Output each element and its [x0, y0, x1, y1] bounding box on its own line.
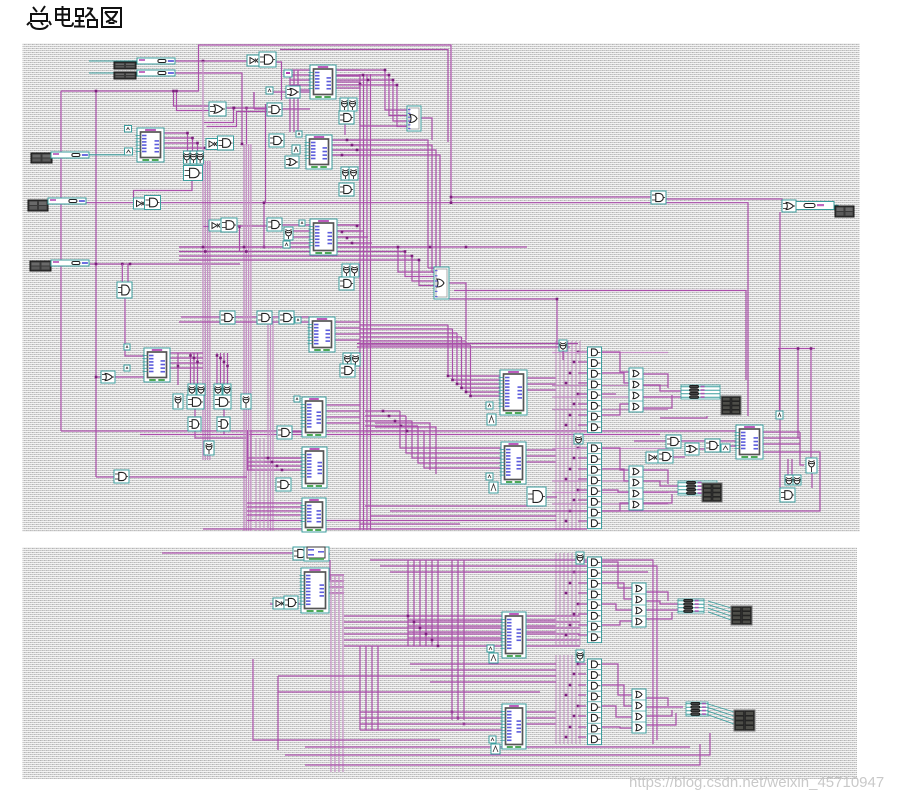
gate GB1	[293, 547, 308, 560]
IC UF	[501, 612, 527, 658]
gate G23c	[340, 364, 355, 377]
wire mux2 out	[449, 283, 466, 340]
wire or-g4	[226, 107, 267, 109]
wire bus x270	[268, 317, 273, 531]
wire dcol1 in	[578, 352, 588, 425]
gate G25u-a	[184, 151, 191, 164]
wire g36 to or	[666, 199, 782, 207]
wire bus	[205, 161, 210, 460]
wire U1-mux1	[336, 75, 407, 116]
wire	[179, 321, 309, 323]
wire UC out	[763, 432, 800, 444]
wire p2 stair	[408, 560, 438, 646]
wire	[272, 91, 286, 93]
gate G38	[559, 340, 567, 351]
word generator XWG5	[30, 261, 51, 271]
wire	[223, 431, 225, 434]
IC U2	[305, 135, 333, 169]
wire into UA	[466, 341, 500, 392]
wire	[601, 604, 632, 610]
wire U2-mux2	[332, 140, 428, 268]
gate G21	[257, 311, 272, 324]
wire y529	[203, 528, 587, 530]
junction	[177, 354, 229, 367]
wire	[788, 459, 792, 476]
IC UC	[735, 425, 764, 459]
junction	[382, 410, 409, 433]
display DS4	[734, 710, 755, 731]
wire into UB	[400, 411, 501, 448]
wire p2 bundle	[344, 616, 580, 646]
wire	[114, 376, 144, 378]
wire U9 out2	[164, 138, 193, 152]
IC U3	[309, 219, 338, 255]
clock CLK19	[489, 736, 496, 743]
gate G25u-b	[190, 151, 197, 164]
gate G26a	[214, 384, 222, 395]
word generator XWG1	[114, 62, 136, 69]
wire to G19b	[127, 264, 129, 284]
gate G19	[117, 282, 132, 298]
wire y290	[454, 291, 746, 381]
wire	[642, 470, 668, 484]
IC U6	[301, 397, 327, 437]
wire U4 spread	[360, 324, 448, 326]
word generator XWG2	[114, 72, 136, 79]
wire net1	[175, 60, 247, 62]
wire U1 in	[290, 70, 310, 90]
gate G24	[101, 371, 115, 383]
wire	[346, 99, 348, 108]
wire into UF	[408, 620, 502, 638]
wire UA out	[527, 378, 556, 390]
wire x239	[239, 227, 241, 252]
wire bus x260	[256, 438, 268, 531]
word generator probe block XP1	[835, 206, 854, 217]
gate GB2a	[273, 598, 285, 609]
wire into UA	[448, 325, 500, 376]
wire U1-mux1	[336, 80, 407, 121]
wire x246 up	[246, 108, 248, 146]
wire	[390, 571, 648, 573]
gate G18c	[339, 277, 354, 290]
word generator XWG4	[28, 200, 48, 211]
IC UB	[500, 442, 527, 484]
wire	[800, 432, 804, 465]
wire U3 in	[290, 231, 310, 243]
wire into UB	[418, 426, 501, 463]
wire mux2 in	[434, 281, 440, 283]
wire	[420, 669, 556, 671]
wire x780	[779, 212, 781, 459]
wire	[223, 409, 225, 418]
wire bus x246	[244, 144, 251, 531]
wire	[634, 440, 666, 442]
wire bottom1	[285, 733, 710, 755]
wire x265	[265, 104, 267, 203]
wire row247-mux2	[179, 256, 434, 281]
resistor pack RP4	[686, 702, 708, 716]
wire y511	[390, 510, 732, 512]
wire	[646, 592, 668, 601]
gate GB2b	[284, 596, 298, 609]
wire U9 out1	[164, 133, 188, 152]
wire into UB	[424, 431, 501, 468]
resistor pack RP1	[681, 385, 720, 399]
wire UG out	[526, 712, 556, 724]
wire U1-mux1	[336, 70, 407, 110]
junction UA in	[447, 375, 472, 398]
gate G13b	[221, 218, 237, 232]
wire	[601, 562, 632, 588]
clock CLK8	[125, 148, 133, 155]
wire corner2	[177, 91, 212, 111]
wire	[300, 91, 310, 93]
gate G6a	[206, 139, 218, 150]
wire	[272, 316, 280, 318]
wire into UA	[462, 337, 501, 388]
clock CLK16	[721, 444, 730, 452]
junction	[245, 107, 248, 110]
wire U3 out	[337, 225, 360, 243]
wire	[278, 675, 556, 677]
junction	[359, 74, 370, 86]
wire	[796, 205, 798, 207]
wire into UA	[471, 345, 501, 396]
wire	[306, 553, 330, 555]
wire	[601, 404, 629, 415]
gate G14	[267, 218, 282, 231]
wire L1	[204, 108, 234, 123]
gate G18a	[342, 264, 351, 277]
wire cyan inC	[53, 263, 90, 265]
gate column OC1	[629, 368, 643, 412]
wire y506	[365, 505, 543, 507]
wire row247	[179, 246, 527, 248]
gate G7	[269, 134, 284, 147]
IC UG	[501, 704, 527, 749]
wire	[601, 393, 616, 395]
IC U4	[308, 317, 336, 352]
wire long pair B	[140, 434, 660, 436]
wire bus mid	[360, 74, 371, 530]
switch S5	[51, 260, 89, 266]
IC UD (cut at panel top)	[304, 547, 329, 561]
wire	[290, 70, 298, 132]
gate G32	[277, 426, 292, 439]
grid panel 2	[23, 547, 858, 779]
wire	[646, 713, 676, 725]
wire into UB	[406, 416, 501, 453]
wire U7 in2	[264, 458, 302, 462]
wire	[646, 706, 683, 708]
clock CLK2	[296, 131, 302, 137]
clock CLK14	[486, 473, 493, 480]
clock CLK1	[266, 87, 273, 94]
wire	[642, 491, 678, 493]
wire A-probe	[779, 349, 781, 412]
wire cyan inA	[89, 154, 125, 156]
gate G5a	[340, 98, 349, 111]
wire y477	[96, 476, 247, 478]
junction	[797, 347, 813, 350]
gate G25c	[197, 384, 205, 395]
IC U9	[136, 128, 165, 162]
wire	[253, 659, 440, 740]
wire right rail p2a	[370, 560, 653, 744]
junction	[341, 139, 359, 157]
wire	[253, 92, 255, 109]
wire	[277, 676, 279, 750]
display DS3	[731, 606, 752, 625]
wire dcol2 in	[578, 448, 588, 521]
wire cyan	[834, 206, 838, 209]
gate G12a	[134, 198, 146, 209]
wire	[344, 121, 346, 135]
junction U9 out	[186, 132, 205, 150]
svg-text:https://blog.csdn.net/weixin_4: https://blog.csdn.net/weixin_45710947	[629, 774, 884, 791]
wire	[365, 425, 418, 427]
junction	[95, 90, 98, 93]
wire	[601, 490, 629, 492]
wire	[365, 430, 424, 432]
gate column DC1	[588, 347, 602, 433]
clock CLK18	[489, 653, 498, 663]
wire	[340, 112, 342, 121]
gate G36	[651, 191, 666, 204]
wire corner1	[174, 91, 212, 106]
wire	[254, 108, 267, 110]
wire trio loop	[134, 181, 193, 198]
gate G26b	[223, 384, 231, 395]
wire	[194, 409, 196, 418]
wire UF out	[526, 620, 556, 632]
wire	[234, 316, 257, 318]
word generator XWG3	[31, 153, 52, 163]
wire stair extra	[375, 423, 430, 470]
wire bus top2	[280, 50, 448, 143]
wire U5 out	[170, 353, 203, 368]
wire	[286, 603, 301, 605]
wire UE out	[329, 575, 344, 593]
junction dist2	[565, 447, 580, 523]
wire	[601, 448, 629, 470]
gate G49b	[793, 475, 801, 485]
wire	[697, 448, 705, 450]
wire	[235, 225, 267, 227]
wire	[282, 224, 310, 226]
gate G20	[220, 311, 235, 324]
wire x811	[810, 349, 812, 459]
junction row247	[202, 246, 248, 253]
wire	[278, 691, 540, 693]
gate column OC4	[632, 689, 646, 733]
wire U4 out	[335, 322, 360, 340]
wire band A	[552, 353, 668, 410]
wire p2 stair2	[452, 560, 464, 720]
clock CLK17	[487, 645, 494, 652]
gate G29	[204, 441, 214, 455]
gate G39	[574, 434, 583, 444]
wire	[673, 456, 685, 458]
wire	[678, 440, 736, 442]
junction	[341, 225, 359, 245]
gate G11b	[349, 167, 358, 180]
gate G47c	[705, 439, 720, 452]
resistor pack RP2	[678, 481, 717, 495]
wire mux2 in	[428, 267, 434, 269]
junction	[232, 107, 235, 110]
wire	[646, 698, 668, 706]
wire	[359, 84, 361, 126]
gate column OC3	[632, 583, 646, 627]
display DS1	[721, 396, 741, 415]
junction	[95, 376, 98, 379]
gate G25u-c	[197, 151, 204, 164]
resistor R1	[796, 202, 834, 210]
gate G28b	[217, 417, 230, 431]
wire y343	[357, 343, 578, 345]
wire	[360, 125, 407, 127]
gate G47e	[658, 450, 673, 463]
clock CLK13	[487, 414, 496, 425]
clock CLK11	[294, 396, 300, 402]
gate G22	[279, 311, 294, 324]
gate G30	[114, 470, 129, 483]
gate G25b	[188, 384, 196, 395]
wire g38 out	[562, 351, 564, 360]
clock CLK9	[124, 344, 130, 350]
wire U3 out	[337, 224, 360, 226]
IC UE	[300, 568, 330, 613]
resistor pack RP3	[678, 599, 704, 613]
wire U6 out	[326, 405, 360, 423]
wire	[601, 621, 632, 625]
wire U4 spread	[360, 340, 466, 342]
wire dcol4 in	[578, 664, 586, 737]
wire	[181, 316, 203, 318]
wire	[365, 410, 400, 412]
clock CLK7	[125, 126, 132, 133]
clock CLK20	[491, 744, 500, 754]
IC UA	[499, 370, 528, 415]
wire	[601, 583, 632, 599]
wire L2	[207, 112, 268, 127]
wire band B	[552, 449, 668, 505]
gate MUX2	[434, 267, 449, 299]
gate G15	[284, 227, 293, 240]
wire	[601, 685, 632, 706]
junction	[429, 246, 468, 249]
wire U3 out	[337, 236, 368, 238]
clock CLK4	[299, 220, 305, 226]
gate G28a	[188, 417, 201, 431]
gate G25a	[173, 394, 183, 409]
IC U7	[301, 447, 328, 488]
wire into UA	[457, 333, 500, 384]
gate GB3	[576, 552, 584, 564]
wire cyan in1	[89, 60, 175, 62]
wire dist p2b	[556, 655, 580, 744]
wire long pair A	[61, 430, 736, 432]
wire stair extra	[375, 427, 436, 474]
gate column DC2	[588, 443, 602, 529]
junction	[233, 107, 236, 110]
wire	[114, 476, 129, 478]
wire	[601, 352, 629, 372]
wire U3 out	[337, 242, 372, 244]
gate MUX1	[407, 106, 421, 131]
wire row247-mux2	[179, 247, 434, 272]
wire	[365, 415, 406, 417]
wire	[248, 430, 252, 470]
junction p2b	[565, 663, 580, 739]
wire	[646, 609, 683, 611]
wire U2 out	[332, 140, 360, 155]
wire into U8	[247, 503, 302, 515]
gate GB4	[576, 650, 584, 662]
wire bus top loop	[61, 45, 451, 203]
wire left rail x62	[60, 91, 62, 431]
gate G1b	[259, 52, 276, 67]
wire y516	[370, 515, 556, 517]
wire	[601, 373, 629, 383]
wire	[779, 459, 781, 490]
wire into UG	[360, 712, 502, 730]
gate G46	[527, 487, 546, 506]
junction	[450, 196, 453, 199]
wire U1 out	[336, 70, 360, 88]
gate column DC4	[588, 659, 602, 745]
wire	[642, 481, 678, 486]
wire	[646, 710, 672, 716]
wire x798	[797, 349, 799, 439]
switch S1	[137, 58, 175, 64]
junction	[172, 90, 178, 93]
wire g48 out	[811, 473, 813, 488]
gate column OC2	[629, 466, 643, 510]
wire U4 spread	[360, 336, 462, 338]
junction	[263, 201, 453, 248]
wire	[365, 420, 412, 422]
wire	[360, 646, 378, 730]
wire	[292, 316, 309, 318]
gate G23b	[351, 353, 360, 366]
wire into UA	[453, 329, 501, 380]
wire g1 out	[276, 62, 282, 100]
wire	[646, 612, 672, 619]
wire dist p2a	[556, 553, 580, 645]
wire	[329, 560, 331, 580]
wire y524	[360, 523, 460, 525]
wire	[601, 664, 632, 695]
IC U8	[301, 498, 327, 532]
label box LB1	[284, 70, 292, 77]
switch S3	[51, 152, 89, 158]
clock CLK15	[489, 482, 498, 493]
gate G25d	[187, 395, 204, 409]
gate G5c	[339, 111, 354, 124]
wire dcol3 in	[578, 562, 588, 635]
grid panel 1	[23, 43, 860, 532]
wire inB	[85, 202, 134, 204]
wire y520	[247, 520, 556, 522]
wire to g36	[451, 196, 651, 198]
gate G11c	[339, 183, 354, 196]
wire y299	[449, 299, 557, 345]
wire	[204, 226, 210, 228]
gate G47a	[666, 435, 681, 448]
